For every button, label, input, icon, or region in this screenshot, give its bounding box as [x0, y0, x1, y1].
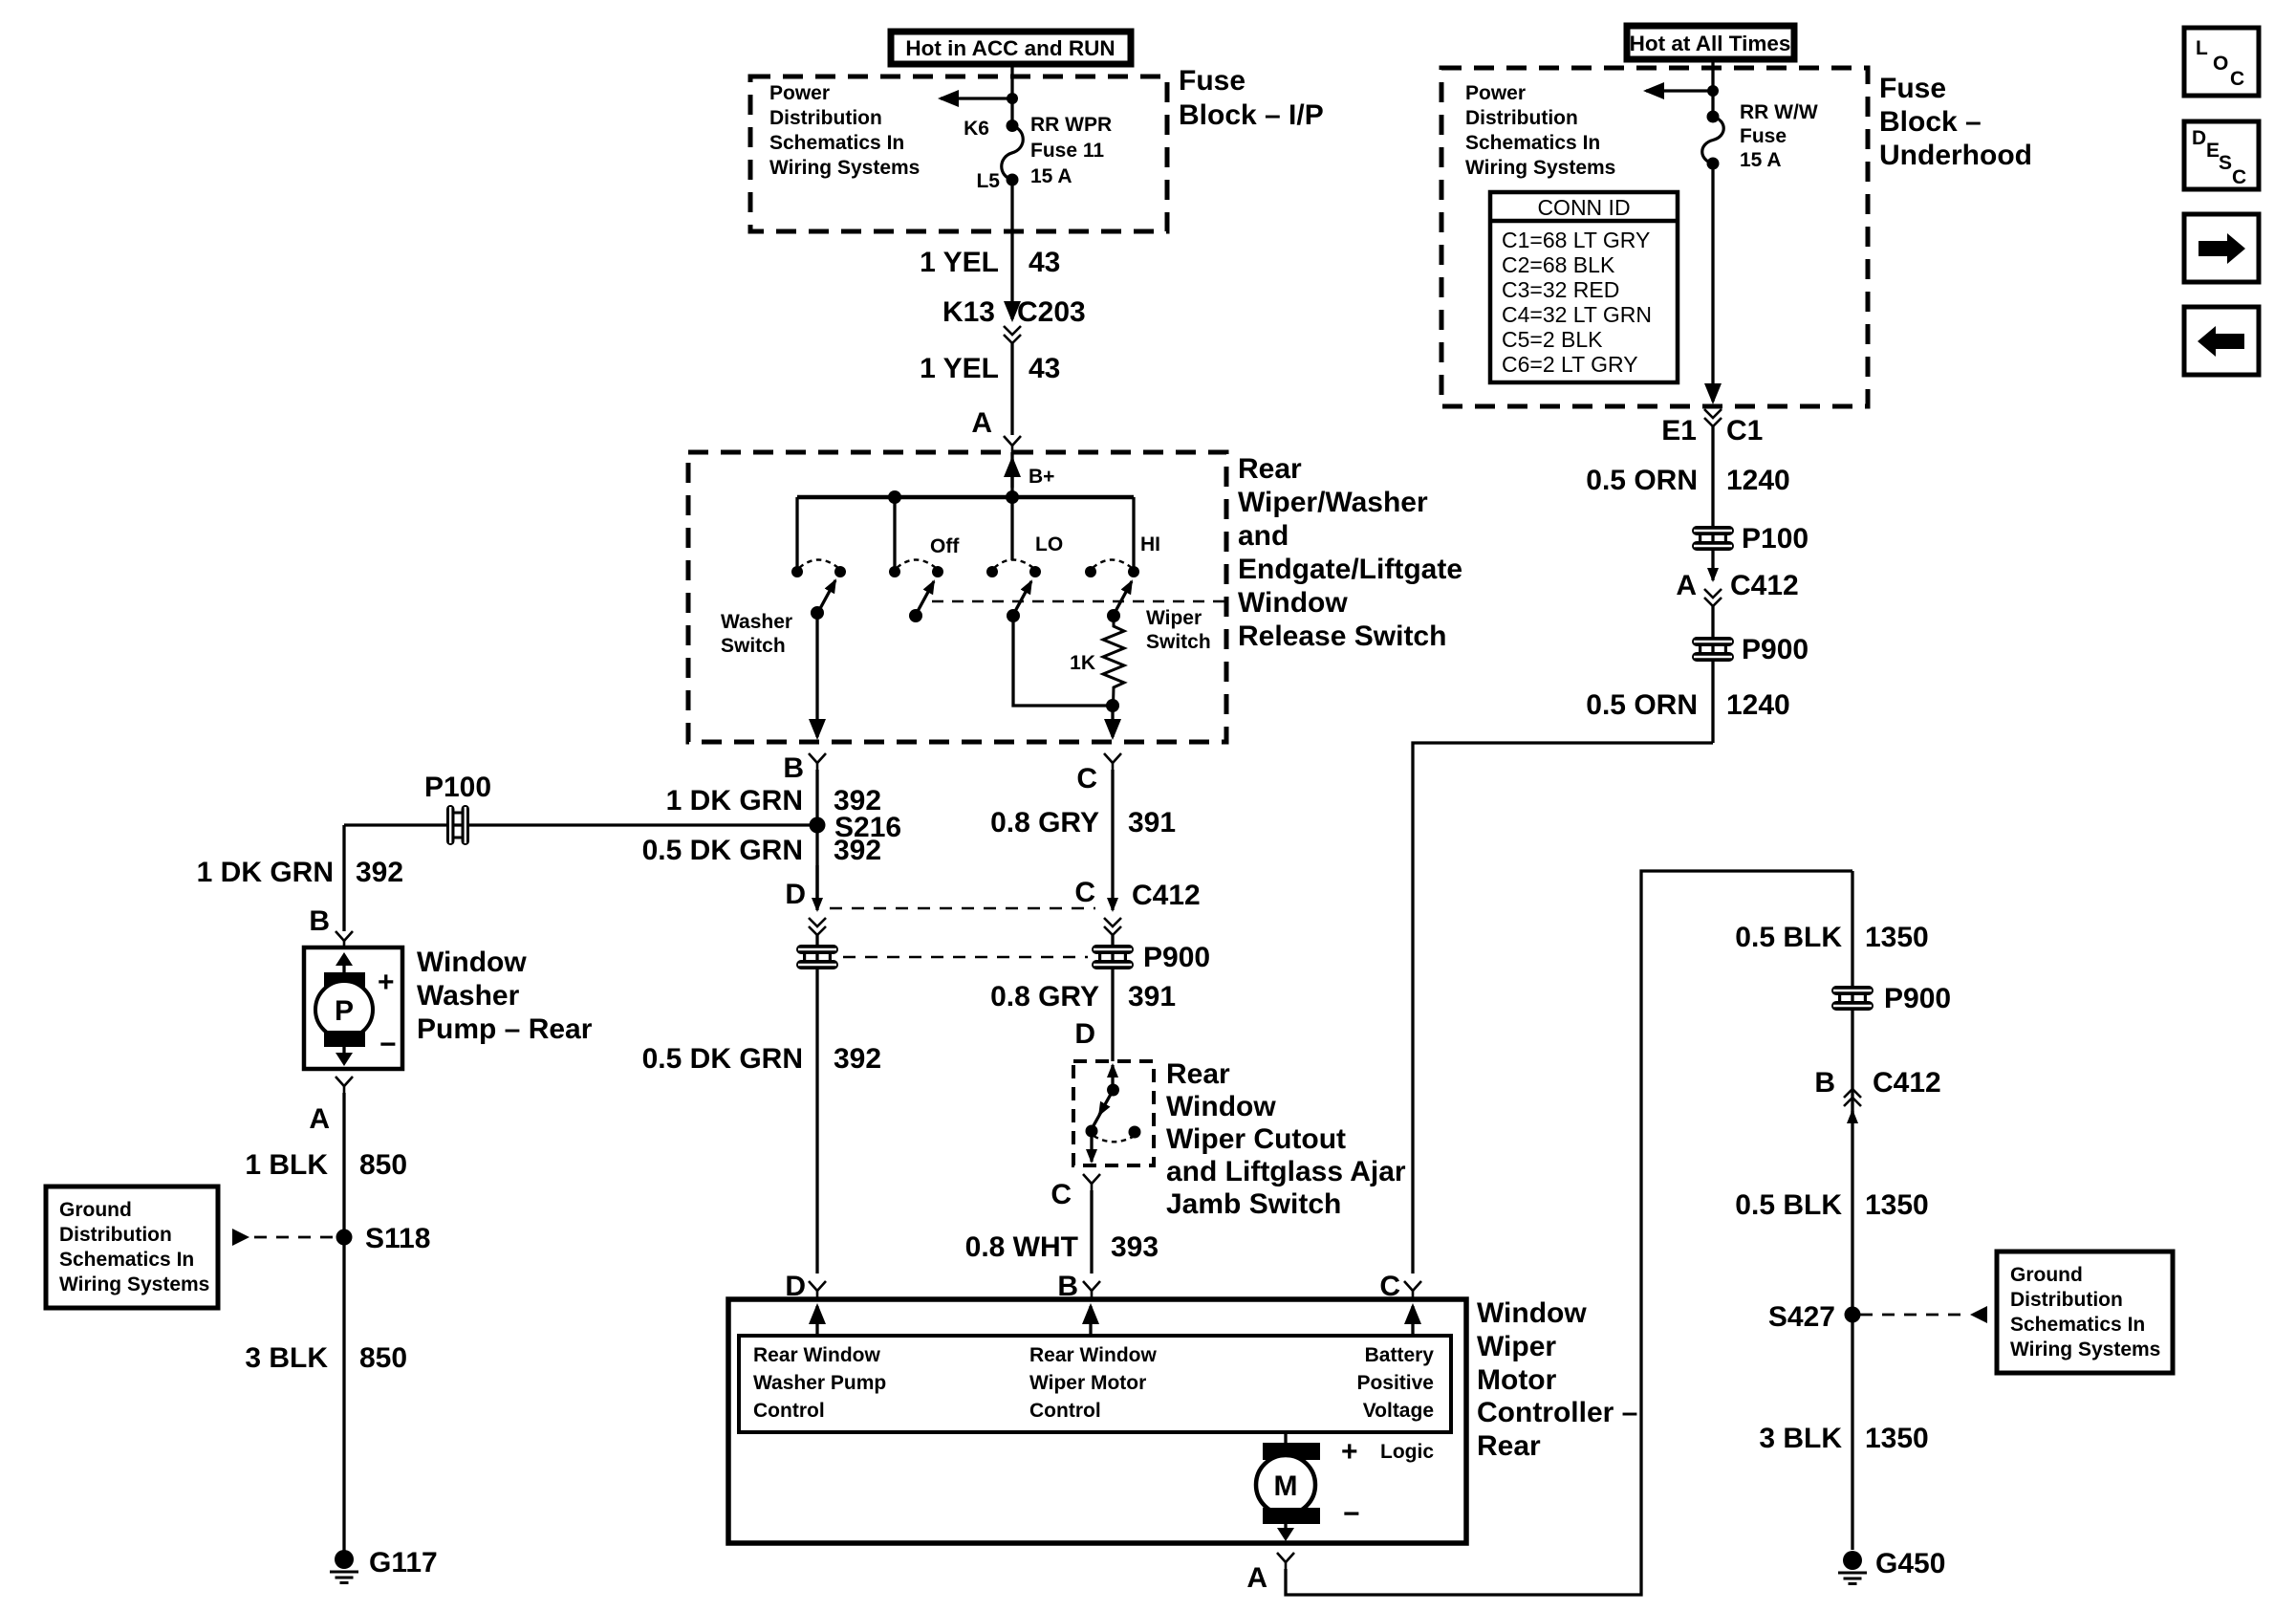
- svg-text:P100: P100: [424, 772, 491, 803]
- component box: controller outer: [728, 1299, 1466, 1543]
- svg-text:P900: P900: [1742, 634, 1809, 665]
- svg-text:43: 43: [1029, 353, 1060, 384]
- svg-text:1 DK GRN: 1 DK GRN: [197, 857, 334, 888]
- connector C1 terminal E1: [1661, 409, 1763, 446]
- svg-text:Voltage: Voltage: [1363, 1400, 1434, 1422]
- terminal A of switch: [971, 407, 1021, 452]
- wire: P100 horizontal to washer pump: [344, 823, 810, 826]
- svg-text:A: A: [1676, 570, 1697, 601]
- node S427: [1768, 1301, 1861, 1333]
- Off switch: feed drop: [893, 497, 896, 567]
- inline connector P900: [1092, 942, 1210, 973]
- LO switch: feed drop: [1010, 497, 1013, 560]
- wire: internal supply bus: [797, 495, 1134, 499]
- svg-text:Power: Power: [1465, 82, 1526, 104]
- nav box LOC: [2184, 28, 2259, 96]
- washer switch: feed drop: [795, 497, 798, 567]
- motor M inside controller: [1256, 1432, 1360, 1541]
- svg-text:393: 393: [1111, 1231, 1159, 1263]
- svg-text:43: 43: [1029, 247, 1060, 278]
- node: bus dot (B+ feed): [1006, 490, 1019, 504]
- svg-text:P900: P900: [1884, 983, 1951, 1014]
- svg-text:0.8 GRY: 0.8 GRY: [990, 981, 1099, 1012]
- node S216: [810, 812, 902, 843]
- svg-text:1K: 1K: [1070, 652, 1095, 674]
- svg-text:CONN ID: CONN ID: [1537, 195, 1630, 220]
- svg-text:0.5 BLK: 0.5 BLK: [1735, 922, 1842, 953]
- svg-text:1240: 1240: [1726, 465, 1790, 496]
- svg-text:Hot at All Times: Hot at All Times: [1630, 32, 1791, 55]
- svg-text:Release Switch: Release Switch: [1238, 620, 1446, 652]
- wire: down to pump terminal B: [342, 825, 345, 931]
- wire: washer output with down arrow: [815, 614, 818, 737]
- ground G117: [330, 1547, 438, 1583]
- wire label "0.5 ORN 1240": [1586, 689, 1789, 721]
- wire label "0.8 WHT 393": [965, 1231, 1159, 1263]
- svg-text:Jamb Switch: Jamb Switch: [1166, 1188, 1341, 1220]
- note: Power Distribution Schematics In Wiring Systems (left): [769, 82, 920, 179]
- svg-text:Control: Control: [753, 1400, 825, 1422]
- reference arrow to S118: [232, 1229, 336, 1246]
- svg-text:+: +: [378, 967, 395, 998]
- nav box right arrow: [2184, 214, 2259, 282]
- node: junction dot: [1707, 85, 1719, 97]
- svg-text:1350: 1350: [1865, 922, 1929, 953]
- wire: B+ entry with up arrow: [1010, 452, 1013, 497]
- svg-text:E1: E1: [1661, 415, 1697, 446]
- svg-text:and Liftglass Ajar: and Liftglass Ajar: [1166, 1156, 1406, 1187]
- node S118: [336, 1223, 431, 1254]
- svg-text:Schematics In: Schematics In: [2010, 1314, 2145, 1336]
- svg-text:C3=32 RED: C3=32 RED: [1502, 277, 1619, 302]
- svg-text:Rear: Rear: [1238, 453, 1302, 485]
- wire: C203 to switch terminal A: [1010, 343, 1013, 435]
- connector C412 terminal C: [1074, 877, 1200, 935]
- svg-text:Fuse: Fuse: [1879, 73, 1946, 104]
- svg-text:C4=32 LT GRN: C4=32 LT GRN: [1502, 302, 1652, 327]
- wire: C412 to P900: [1711, 606, 1714, 743]
- svg-text:0.5 DK GRN: 0.5 DK GRN: [642, 835, 803, 866]
- inline connector P900 (left half): [796, 945, 838, 969]
- label: Rear Window Wiper Cutout and Liftglass Ajar Jamb Switch: [1166, 1058, 1406, 1220]
- wire: C412 D to P900: [815, 865, 818, 910]
- wire label "0.8 GRY 391": [990, 981, 1176, 1012]
- svg-text:and: and: [1238, 520, 1289, 552]
- svg-text:Pump – Rear: Pump – Rear: [417, 1013, 593, 1045]
- label: Wiper Switch: [1146, 607, 1211, 653]
- svg-text:RR W/W: RR W/W: [1740, 101, 1818, 123]
- wire label "0.5 BLK 1350": [1735, 1189, 1928, 1221]
- label: Washer Switch: [721, 611, 792, 657]
- arrow into wiper motor control: [1089, 1306, 1092, 1336]
- svg-text:Fuse: Fuse: [1179, 65, 1245, 97]
- dashed link between P900 halves: [843, 956, 1088, 958]
- svg-text:Window: Window: [417, 947, 527, 978]
- wire label "0.5 BLK 1350": [1735, 922, 1928, 953]
- component box: controller logic inner: [739, 1336, 1451, 1432]
- terminal C of switch: [1076, 753, 1121, 795]
- connector C412 terminal D (left): [785, 879, 826, 935]
- svg-text:C1: C1: [1726, 415, 1763, 446]
- resistor 1K: [1103, 616, 1124, 706]
- wire: ground path down to G450: [1851, 871, 1853, 1550]
- wire: hot feed into fuse block: [1010, 64, 1013, 125]
- node: resistor/LO junction: [1106, 699, 1119, 712]
- connector C412 terminal A: [1676, 568, 1798, 606]
- dashed gang line: [932, 600, 1226, 602]
- terminal B of switch: [783, 752, 826, 784]
- svg-text:D: D: [785, 879, 806, 910]
- svg-text:Distribution: Distribution: [769, 107, 882, 129]
- svg-text:392: 392: [834, 835, 881, 866]
- svg-text:Switch: Switch: [1146, 631, 1211, 653]
- svg-text:3 BLK: 3 BLK: [245, 1342, 328, 1374]
- svg-text:HI: HI: [1140, 533, 1160, 555]
- dashed box: Fuse Block - I/P: [750, 76, 1167, 231]
- wire: hot feed into underhood block: [1711, 59, 1714, 117]
- svg-text:392: 392: [834, 1043, 881, 1075]
- svg-text:C: C: [1074, 877, 1095, 908]
- value label: RR W/W Fuse 15 A: [1740, 101, 1818, 171]
- svg-text:Rear Window: Rear Window: [1029, 1344, 1157, 1366]
- wire label "3 BLK 850": [245, 1342, 407, 1374]
- svg-text:Block –: Block –: [1879, 106, 1982, 138]
- fuse: RR W/W Fuse 15A: [1702, 111, 1724, 170]
- fuse: RR WPR Fuse 11 15A: [1002, 120, 1024, 186]
- LO switch contacts and arm: [986, 560, 1041, 623]
- svg-text:Wiring Systems: Wiring Systems: [2010, 1339, 2160, 1361]
- ground G450: [1838, 1548, 1945, 1584]
- HI switch: feed drop from bus end: [1132, 497, 1135, 567]
- svg-text:P: P: [335, 995, 354, 1027]
- svg-text:1350: 1350: [1865, 1189, 1929, 1221]
- wire label "0.5 ORN 1240": [1586, 465, 1789, 496]
- wire label "3 BLK 1350": [1759, 1423, 1928, 1454]
- wire: switch C to C412: [1111, 770, 1114, 910]
- svg-text:K13: K13: [942, 296, 995, 328]
- wire: left arrow to power distribution: [1646, 89, 1713, 92]
- svg-text:392: 392: [356, 857, 403, 888]
- svg-text:Rear: Rear: [1166, 1058, 1230, 1090]
- svg-text:Schematics In: Schematics In: [1465, 132, 1600, 154]
- svg-text:Washer Pump: Washer Pump: [753, 1372, 886, 1394]
- svg-text:Logic: Logic: [1380, 1441, 1434, 1463]
- dashed box: jamb switch: [1073, 1061, 1154, 1165]
- svg-text:−: −: [379, 1029, 397, 1060]
- svg-text:Endgate/Liftgate: Endgate/Liftgate: [1238, 554, 1462, 585]
- svg-text:C412: C412: [1730, 570, 1799, 601]
- svg-text:L5: L5: [976, 170, 1000, 192]
- svg-text:0.5 ORN: 0.5 ORN: [1586, 465, 1698, 496]
- svg-text:Window: Window: [1238, 587, 1348, 619]
- svg-text:Distribution: Distribution: [1465, 107, 1578, 129]
- svg-text:Hot in ACC and RUN: Hot in ACC and RUN: [905, 36, 1115, 60]
- terminal D of controller: [785, 1271, 826, 1302]
- wire: left arrow to power distribution: [941, 97, 1012, 99]
- svg-text:391: 391: [1128, 807, 1176, 838]
- wire: jamb switch output with down arrow: [1090, 1131, 1093, 1162]
- svg-text:Window: Window: [1166, 1091, 1276, 1122]
- svg-text:15 A: 15 A: [1030, 165, 1072, 187]
- svg-text:0.5 BLK: 0.5 BLK: [1735, 1189, 1842, 1221]
- terminal B of controller: [1057, 1271, 1100, 1302]
- wire: motor return loop to right column: [1286, 871, 1852, 1595]
- svg-text:Washer: Washer: [417, 980, 520, 1012]
- svg-text:Block – I/P: Block – I/P: [1179, 99, 1324, 131]
- svg-text:A: A: [1246, 1562, 1267, 1594]
- terminal C of jamb switch: [1051, 1174, 1100, 1210]
- svg-text:C: C: [1076, 763, 1097, 795]
- label: Fuse Block - Underhood: [1879, 73, 2032, 171]
- svg-text:D: D: [1074, 1018, 1095, 1050]
- svg-text:Underhood: Underhood: [1879, 140, 2032, 171]
- washer switch contacts and arm: [791, 560, 846, 620]
- svg-text:G450: G450: [1875, 1548, 1945, 1579]
- svg-text:1 YEL: 1 YEL: [920, 353, 999, 384]
- svg-text:C6=2 LT GRY: C6=2 LT GRY: [1502, 352, 1638, 377]
- label: Rear Window Washer Pump Control: [753, 1344, 886, 1422]
- table: CONN ID: [1490, 192, 1678, 382]
- svg-text:C2=68 BLK: C2=68 BLK: [1502, 252, 1615, 277]
- svg-text:S118: S118: [365, 1223, 430, 1254]
- wire: C1 to P100: [1711, 426, 1714, 568]
- svg-text:P100: P100: [1742, 523, 1809, 555]
- label: Window Wiper Motor Controller - Rear: [1477, 1297, 1637, 1462]
- svg-text:Power: Power: [769, 82, 830, 104]
- svg-text:RR WPR: RR WPR: [1030, 114, 1112, 136]
- wire: wiper output with down arrow: [1111, 706, 1114, 737]
- wire label "1 DK GRN 392": [197, 857, 403, 888]
- svg-text:C1=68 LT GRY: C1=68 LT GRY: [1502, 228, 1650, 252]
- svg-text:Distribution: Distribution: [59, 1224, 172, 1246]
- node: junction dot at feed: [1007, 93, 1018, 104]
- svg-text:Battery: Battery: [1365, 1344, 1435, 1366]
- wire: switch B to S216: [815, 770, 818, 903]
- svg-text:G117: G117: [369, 1547, 438, 1578]
- svg-text:Wiring Systems: Wiring Systems: [59, 1274, 209, 1295]
- svg-text:C: C: [2232, 166, 2246, 188]
- label: Rear Window Wiper Motor Control: [1029, 1344, 1157, 1422]
- svg-text:Fuse 11: Fuse 11: [1030, 140, 1104, 162]
- svg-text:K6: K6: [964, 118, 989, 140]
- svg-text:Wiper: Wiper: [1477, 1331, 1556, 1362]
- svg-text:1350: 1350: [1865, 1423, 1929, 1454]
- svg-text:Wiper Motor: Wiper Motor: [1029, 1372, 1146, 1394]
- svg-text:Washer: Washer: [721, 611, 792, 633]
- label box "Hot in ACC and RUN": [891, 32, 1131, 64]
- svg-text:Ground: Ground: [59, 1199, 132, 1221]
- svg-text:391: 391: [1128, 981, 1176, 1012]
- wire: C412 to cutout switch: [1111, 935, 1114, 1061]
- svg-text:1240: 1240: [1726, 689, 1790, 721]
- svg-text:Wiring Systems: Wiring Systems: [769, 157, 920, 179]
- wire label "0.8 GRY 391": [990, 807, 1176, 838]
- nav box DESC: [2184, 121, 2259, 189]
- inline connector P900: [1692, 634, 1809, 665]
- label: Window Washer Pump - Rear: [417, 947, 593, 1045]
- svg-text:C412: C412: [1132, 880, 1201, 911]
- svg-text:1 YEL: 1 YEL: [920, 247, 999, 278]
- label: Battery Positive Voltage: [1356, 1344, 1434, 1422]
- wire label "1 YEL 43": [920, 247, 1060, 278]
- inline connector P900: [1831, 983, 1951, 1014]
- note: Power Distribution Schematics In Wiring Systems (right): [1465, 82, 1615, 179]
- connector C203 (K13): [942, 296, 1086, 343]
- svg-text:0.8 GRY: 0.8 GRY: [990, 807, 1099, 838]
- svg-text:B: B: [1814, 1067, 1835, 1099]
- svg-text:Wiper/Washer: Wiper/Washer: [1238, 487, 1428, 518]
- svg-text:1 DK GRN: 1 DK GRN: [666, 785, 803, 816]
- value label: RR WPR Fuse 11 15 A: [1030, 114, 1112, 187]
- wire label "1 BLK 850": [245, 1149, 407, 1181]
- Off switch contacts and arm: [889, 560, 943, 623]
- svg-text:L: L: [2196, 37, 2208, 59]
- svg-text:Controller –: Controller –: [1477, 1397, 1637, 1428]
- svg-text:B+: B+: [1029, 466, 1054, 488]
- wire: pump A to G117: [342, 1093, 345, 1553]
- svg-text:3 BLK: 3 BLK: [1759, 1423, 1842, 1454]
- svg-text:C412: C412: [1873, 1067, 1941, 1099]
- wire label "1 YEL 43": [920, 353, 1060, 384]
- svg-text:Control: Control: [1029, 1400, 1101, 1422]
- reference arrow to ground distribution: [1860, 1306, 1987, 1323]
- nav box left arrow: [2184, 307, 2259, 375]
- arrow into washer pump control: [815, 1306, 818, 1336]
- svg-text:Wiper Cutout: Wiper Cutout: [1166, 1123, 1346, 1155]
- svg-text:A: A: [309, 1103, 330, 1135]
- svg-text:+: +: [1341, 1436, 1358, 1468]
- label: Fuse Block - I/P: [1179, 65, 1324, 131]
- svg-text:850: 850: [359, 1149, 407, 1181]
- wire label "0.5 DK GRN 392": [642, 835, 881, 866]
- svg-text:15 A: 15 A: [1740, 149, 1782, 171]
- svg-text:Rear: Rear: [1477, 1430, 1541, 1462]
- wire label "0.5 DK GRN 392": [642, 1043, 881, 1075]
- svg-text:Window: Window: [1477, 1297, 1587, 1329]
- svg-text:E: E: [2206, 140, 2220, 162]
- svg-text:C: C: [1051, 1179, 1072, 1210]
- dashed box: switch assembly: [688, 452, 1226, 742]
- svg-text:1 BLK: 1 BLK: [245, 1149, 328, 1181]
- HI switch contacts and arm: [1085, 560, 1139, 623]
- component: Window Washer Pump - Rear: [304, 947, 402, 1069]
- terminal C of controller: [1379, 1271, 1421, 1302]
- wire: fuse output with down arrow: [1711, 163, 1714, 402]
- svg-text:Switch: Switch: [721, 635, 786, 657]
- svg-text:Distribution: Distribution: [2010, 1289, 2123, 1311]
- svg-text:Motor: Motor: [1477, 1364, 1557, 1396]
- svg-text:Positive: Positive: [1356, 1372, 1434, 1394]
- jamb switch contacts and arm: [1086, 1065, 1141, 1142]
- note box: Ground Distribution (right): [1997, 1252, 2173, 1373]
- svg-text:Fuse: Fuse: [1740, 125, 1787, 147]
- svg-text:S: S: [2219, 152, 2232, 174]
- wire: battery feed to controller C: [1413, 743, 1713, 1274]
- svg-text:C5=2 BLK: C5=2 BLK: [1502, 327, 1603, 352]
- inline connector P100: [424, 772, 491, 845]
- svg-text:A: A: [971, 407, 992, 439]
- svg-text:C203: C203: [1017, 296, 1086, 328]
- arrow into battery positive voltage: [1411, 1306, 1414, 1336]
- svg-text:S427: S427: [1768, 1301, 1835, 1333]
- connector C412 terminal B (up): [1814, 1067, 1940, 1122]
- svg-text:C: C: [2230, 68, 2244, 90]
- dashed link between C412 halves: [830, 907, 1095, 909]
- note box: Ground Distribution (left): [46, 1186, 218, 1308]
- terminal B of pump: [309, 905, 353, 947]
- svg-text:0.8 WHT: 0.8 WHT: [965, 1231, 1078, 1263]
- svg-text:Wiring Systems: Wiring Systems: [1465, 157, 1615, 179]
- wire label "1 DK GRN 392": [666, 785, 881, 816]
- svg-text:LO: LO: [1035, 533, 1063, 555]
- svg-text:−: −: [1343, 1498, 1360, 1530]
- svg-text:P900: P900: [1143, 942, 1210, 973]
- label box "Hot at All Times": [1627, 26, 1794, 59]
- dashed box: Fuse Block - Underhood: [1441, 68, 1868, 406]
- label: Rear Wiper/Washer and Endgate/Liftgate Window Release Switch: [1238, 453, 1462, 652]
- wire: fuse output down to C203: [1010, 180, 1013, 319]
- svg-text:O: O: [2213, 53, 2228, 75]
- terminal A of controller: [1246, 1553, 1294, 1594]
- svg-text:0.5 ORN: 0.5 ORN: [1586, 689, 1698, 721]
- svg-text:850: 850: [359, 1342, 407, 1374]
- inline connector P100: [1692, 523, 1809, 555]
- svg-text:Schematics In: Schematics In: [769, 132, 904, 154]
- terminal A of pump: [309, 1077, 353, 1135]
- svg-text:B: B: [783, 752, 804, 784]
- node: bus dot (Off feed): [888, 490, 901, 504]
- wire: jamb switch to controller B: [1090, 1190, 1093, 1274]
- svg-text:C: C: [1379, 1271, 1400, 1302]
- svg-text:Wiper: Wiper: [1146, 607, 1202, 629]
- svg-text:0.5 DK GRN: 0.5 DK GRN: [642, 1043, 803, 1075]
- svg-text:D: D: [2192, 127, 2206, 149]
- svg-text:Rear Window: Rear Window: [753, 1344, 880, 1366]
- svg-text:Schematics In: Schematics In: [59, 1249, 194, 1271]
- wire: LO output to resistor junction: [1013, 616, 1113, 706]
- svg-text:B: B: [309, 905, 330, 937]
- svg-text:M: M: [1274, 1470, 1298, 1502]
- svg-text:Ground: Ground: [2010, 1264, 2083, 1286]
- svg-text:Off: Off: [930, 535, 960, 557]
